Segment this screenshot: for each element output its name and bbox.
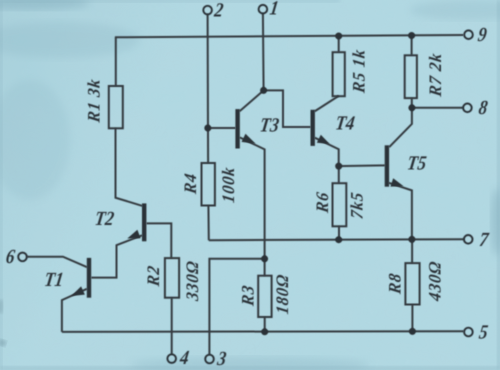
resistor R1 xyxy=(109,86,123,128)
resistor R8 xyxy=(405,263,419,304)
transistor bars xyxy=(89,109,387,298)
svg-text:T5: T5 xyxy=(406,152,428,174)
junction R6 bottom xyxy=(335,236,342,243)
wire R7 top xyxy=(411,36,413,56)
junction R3 bottom xyxy=(261,328,268,335)
svg-text:7k5: 7k5 xyxy=(347,190,367,220)
svg-text:180Ω: 180Ω xyxy=(273,273,293,316)
wire R6 top xyxy=(338,166,340,183)
svg-text:R4: R4 xyxy=(181,172,201,196)
node terminal 2 xyxy=(203,6,212,15)
wire T4 emitter xyxy=(315,138,339,166)
svg-text:330Ω: 330Ω xyxy=(183,259,203,303)
node terminal 6 xyxy=(18,253,27,262)
wire T3 emitter to R3 xyxy=(240,137,265,275)
wire T5 emitter xyxy=(389,183,412,240)
wire terminal 3 riser xyxy=(209,259,264,355)
wire to terminal 8 xyxy=(412,107,463,109)
wire terminal 2 vertical (lower, R4 to rail 7 corner) xyxy=(207,206,209,241)
node terminal 4 xyxy=(167,354,176,363)
wire R7 bottom xyxy=(411,98,413,108)
wire R1 top xyxy=(115,37,117,86)
svg-text:430Ω: 430Ω xyxy=(425,260,445,304)
junction R7 top xyxy=(408,32,415,39)
wire T3 collector xyxy=(240,90,264,111)
svg-text:T1: T1 xyxy=(43,269,65,291)
transistor T1 bar xyxy=(87,258,91,298)
transistor T2 bar xyxy=(142,203,146,241)
wire T4 collector xyxy=(315,96,339,112)
junction R7 bottom / terminal 8 node xyxy=(408,104,415,111)
wire R8 top xyxy=(411,239,413,263)
emitter arrows xyxy=(71,134,403,296)
junction T4 emitter / T5 base xyxy=(335,163,342,170)
wire top rail (to terminal 9) xyxy=(115,35,464,37)
svg-text:T3: T3 xyxy=(258,115,280,137)
junction T5 emitter / R8 top xyxy=(408,236,415,243)
node terminal 3 xyxy=(205,355,214,364)
wire T2 emitter to T1 xyxy=(91,235,142,277)
svg-text:R5 1k: R5 1k xyxy=(349,48,369,95)
wire T1 emitter to bottom rail xyxy=(62,289,87,332)
junction node A (T3 collector) xyxy=(260,87,267,94)
svg-text:100k: 100k xyxy=(218,165,238,204)
svg-text:T2: T2 xyxy=(93,208,115,230)
wire terminal 2 vertical (upper) xyxy=(207,14,210,163)
resistor R3 xyxy=(258,276,271,317)
junction T3 base xyxy=(204,125,211,132)
svg-text:R2: R2 xyxy=(144,264,164,288)
wire R2 bottom to terminal 4 xyxy=(171,298,173,355)
wire T2 base to R2 xyxy=(146,223,171,258)
junction R5 top xyxy=(335,33,342,40)
wire bottom rail (to terminal 5) xyxy=(62,330,464,333)
transistor T2 emitter arrow xyxy=(127,230,140,239)
wire R3 bottom xyxy=(264,317,266,332)
wire terminal 1 vertical xyxy=(262,13,265,90)
svg-text:T4: T4 xyxy=(334,113,356,135)
wire T3 base xyxy=(208,127,236,129)
junction R8 bottom xyxy=(409,328,416,335)
svg-text:R1 3k: R1 3k xyxy=(84,77,104,124)
wire R6 bottom xyxy=(338,226,340,239)
transistor T4 bar xyxy=(311,110,315,146)
node terminal 9 xyxy=(464,30,473,39)
resistor R4 xyxy=(202,163,215,206)
node terminal 8 xyxy=(463,104,472,113)
wire R8 bottom xyxy=(411,305,413,332)
junction T3 emitter / terminal 3 xyxy=(261,255,268,262)
resistor R6 xyxy=(333,183,347,226)
wire T5 collector xyxy=(389,108,412,147)
node terminal 5 xyxy=(464,328,473,337)
transistor T5 bar xyxy=(385,145,389,186)
transistor T3 emitter arrow xyxy=(242,134,256,144)
resistor R2 xyxy=(165,258,179,298)
wire node A to T4 base xyxy=(264,90,311,127)
svg-text:R7 2k: R7 2k xyxy=(426,51,446,98)
node terminal 1 xyxy=(259,5,268,14)
wire terminal 6 to T1 base xyxy=(27,257,87,268)
transistor T3 bar xyxy=(235,109,239,148)
wire T5 base xyxy=(339,164,385,167)
wire rail 7 (to terminal 7) xyxy=(209,239,464,240)
resistor R5 xyxy=(333,52,345,96)
transistor T5 emitter arrow xyxy=(390,178,403,186)
svg-text:R3: R3 xyxy=(238,283,258,307)
svg-text:R6: R6 xyxy=(312,190,332,214)
node terminal 7 xyxy=(464,235,473,244)
svg-text:R8: R8 xyxy=(385,272,405,296)
wire R1 bottom / T2 collector xyxy=(116,128,143,206)
resistor R7 xyxy=(405,55,417,98)
wire R5 top xyxy=(338,36,340,52)
transistor T1 emitter arrow xyxy=(71,286,85,296)
transistor T4 emitter arrow xyxy=(317,135,330,144)
resistor bodies xyxy=(109,52,420,317)
